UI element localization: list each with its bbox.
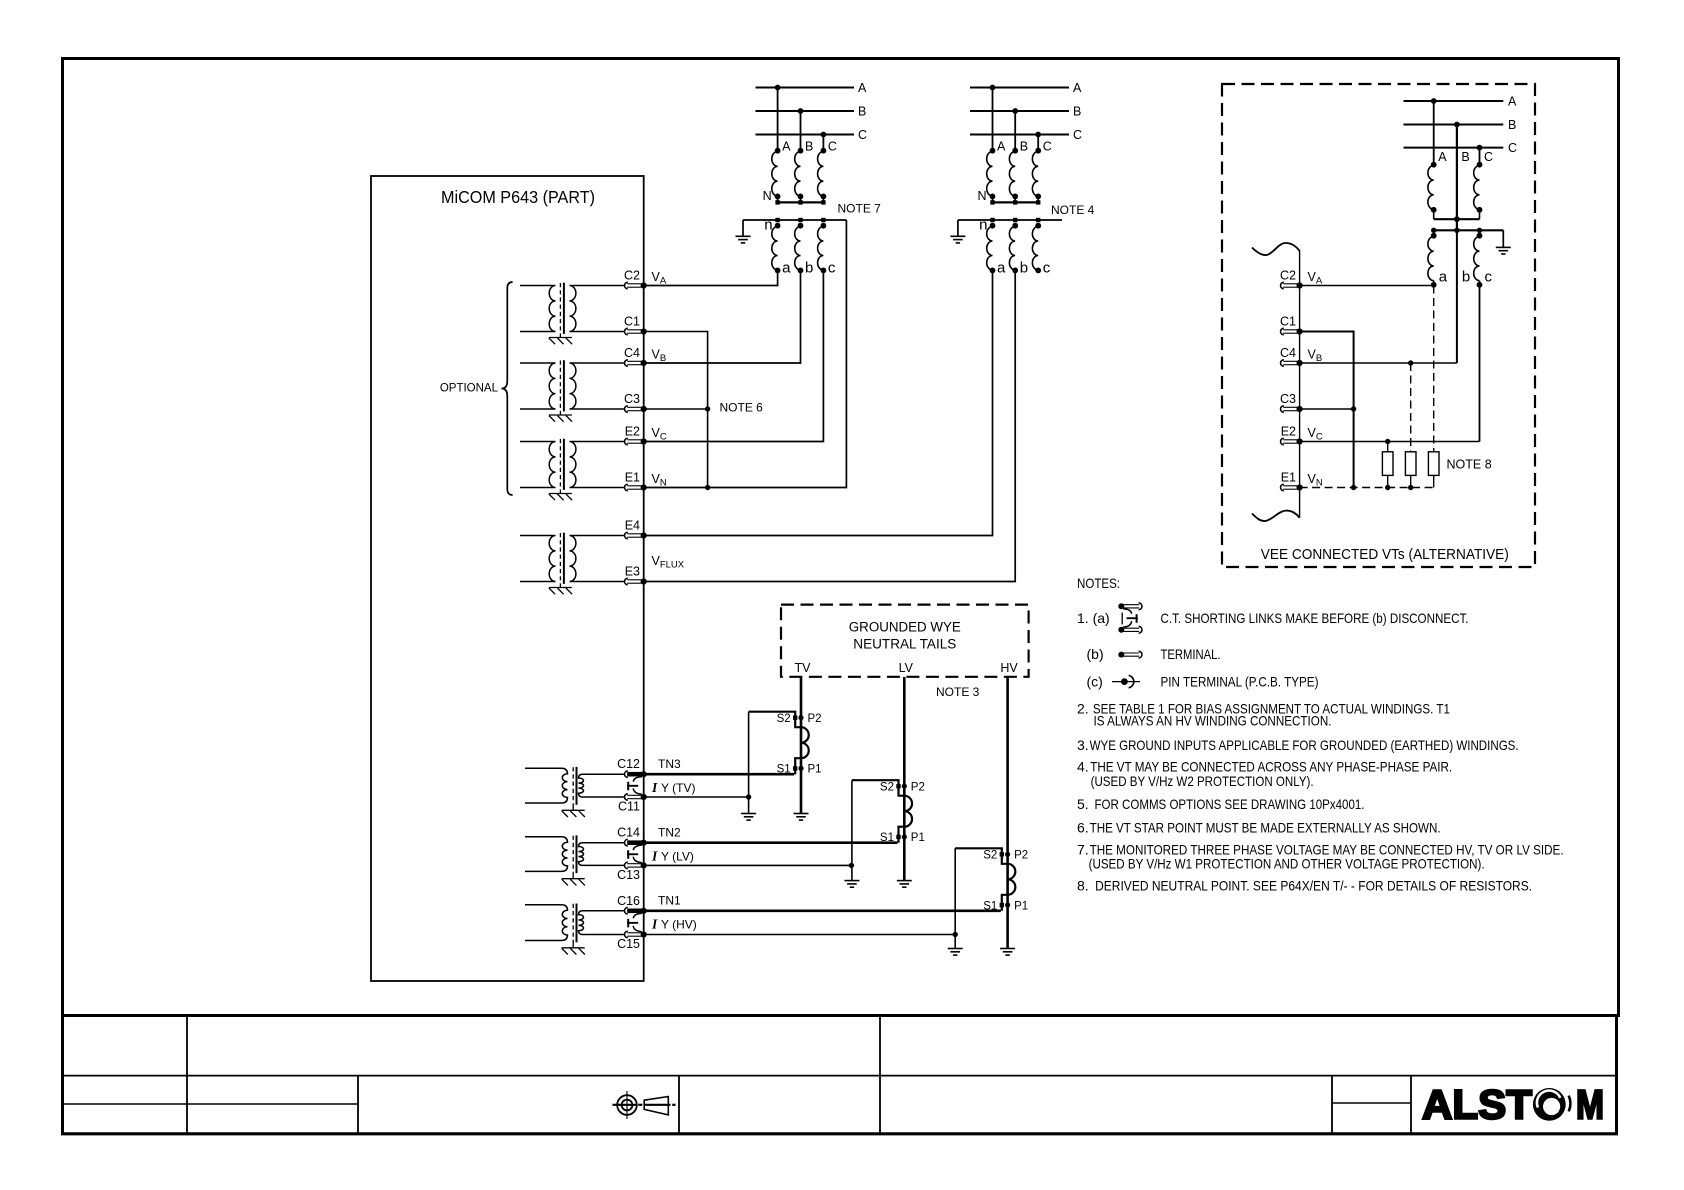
CT LV secondary: [844, 780, 912, 887]
svg-text:P1: P1: [1014, 900, 1028, 912]
svg-text:DERIVED NEUTRAL POINT. SEE P6: DERIVED NEUTRAL POINT. SEE P64X/EN T/- -…: [1095, 878, 1532, 894]
svg-text:c: c: [1485, 269, 1493, 286]
wye VT bank 1 (NOTE 7): [736, 81, 868, 276]
svg-text:(USED BY V/Hz W1 PROTECTION AN: (USED BY V/Hz W1 PROTECTION AND OTHER VO…: [1089, 855, 1485, 871]
svg-text:P2: P2: [1014, 850, 1028, 862]
svg-text:VEE CONNECTED VTs (ALTERNATIVE: VEE CONNECTED VTs (ALTERNATIVE): [1261, 546, 1509, 563]
svg-text:A: A: [782, 140, 791, 154]
svg-text:(USED BY V/Hz W2 PROTECTION ON: (USED BY V/Hz W2 PROTECTION ONLY).: [1091, 773, 1314, 789]
ALSTOM logo: [1422, 1082, 1604, 1128]
svg-text:1. (a): 1. (a): [1077, 610, 1110, 626]
svg-text:HV: HV: [1000, 661, 1018, 675]
svg-text:C16: C16: [617, 894, 640, 908]
title block grid: [61, 1016, 1618, 1134]
svg-text:THE VT STAR POINT MUST BE MADE: THE VT STAR POINT MUST BE MADE EXTERNALL…: [1090, 820, 1441, 836]
label IY (TV): [651, 780, 695, 795]
svg-text:b: b: [1020, 259, 1028, 276]
vee secondary bar with ground: [1431, 228, 1511, 254]
terminal E1: [625, 484, 647, 491]
vee primary bar: [1434, 218, 1480, 220]
svg-text:B: B: [1073, 104, 1081, 118]
vee dashed wire from VB: [1410, 363, 1412, 452]
vee wire VB: [1300, 362, 1457, 364]
wire C1 to star point: [644, 332, 708, 488]
terminal C15: [625, 931, 647, 938]
svg-text:Y (LV): Y (LV): [661, 850, 694, 864]
vee VT secondary winding a: [1428, 233, 1448, 288]
svg-text:C.T. SHORTING LINKS MAKE BEFOR: C.T. SHORTING LINKS MAKE BEFORE (b) DISC…: [1161, 610, 1469, 626]
svg-text:C: C: [1508, 141, 1517, 155]
svg-text:NOTE 4: NOTE 4: [1051, 203, 1095, 217]
terminal C13: [625, 862, 647, 869]
vee junction VN r2: [1408, 485, 1413, 490]
svg-text:Y (HV): Y (HV): [661, 918, 697, 932]
svg-text:a: a: [997, 259, 1006, 276]
svg-text:a: a: [782, 259, 791, 276]
svg-text:B: B: [1461, 150, 1469, 164]
svg-text:3.: 3.: [1077, 737, 1089, 753]
CT HV secondary: [948, 848, 1016, 955]
svg-text:ALST: ALST: [1422, 1082, 1532, 1128]
svg-text:N: N: [763, 189, 772, 203]
svg-text:C4: C4: [624, 346, 640, 360]
svg-text:Y (TV): Y (TV): [661, 781, 695, 795]
svg-text:C11: C11: [618, 800, 640, 814]
vee terminal C2: [1281, 282, 1303, 289]
svg-text:NEUTRAL TAILS: NEUTRAL TAILS: [853, 637, 956, 652]
junction C15 ground: [953, 932, 958, 937]
svg-text:7.: 7.: [1077, 842, 1089, 858]
svg-text:TN3: TN3: [658, 757, 681, 771]
svg-text:TN2: TN2: [658, 826, 681, 840]
drawing border frame: [63, 59, 1619, 1016]
svg-text:OPTIONAL: OPTIONAL: [440, 383, 499, 395]
wire C15 to HV ground: [644, 934, 956, 936]
svg-text:C2: C2: [624, 269, 640, 283]
CT LV primary: [897, 677, 912, 887]
svg-text:E3: E3: [625, 565, 640, 579]
svg-text:C14: C14: [617, 826, 640, 840]
wire bank2 b to E3: [644, 270, 1016, 581]
vee wire VA: [1300, 285, 1434, 287]
wire TN1 C16 to HV S1: [644, 909, 1001, 912]
svg-text:I: I: [651, 849, 658, 864]
terminal C4: [625, 360, 647, 367]
svg-text:6.: 6.: [1077, 820, 1089, 836]
wire bank1 c to VC: [644, 270, 824, 441]
terminal C11: [625, 794, 647, 801]
vee wire VC: [1300, 441, 1480, 443]
wire bank1 n to VN: [644, 220, 847, 488]
vee phase B drop: [1454, 122, 1470, 231]
first-angle projection symbol: [644, 1097, 675, 1115]
svg-text:C1: C1: [1280, 315, 1296, 329]
vee junction VN r1: [1385, 485, 1390, 490]
svg-text:N: N: [977, 189, 986, 203]
svg-text:P2: P2: [911, 782, 925, 794]
symbol terminal: [1118, 651, 1142, 658]
svg-text:A: A: [997, 140, 1006, 154]
svg-text:NOTE 8: NOTE 8: [1447, 458, 1492, 472]
svg-text:A: A: [1508, 94, 1517, 108]
transformer CT input TN2: [525, 835, 625, 885]
svg-text:n: n: [764, 216, 772, 233]
shorting link TN1 terminals: [627, 913, 642, 931]
svg-text:TN1: TN1: [658, 894, 681, 908]
vee connected VTs box: [1222, 84, 1535, 567]
svg-text:E4: E4: [625, 519, 640, 533]
vee junction C3 star: [1351, 406, 1356, 411]
svg-text:E2: E2: [1281, 425, 1296, 439]
CT HV primary: [1000, 677, 1015, 955]
vee wire b to VB: [1456, 230, 1458, 363]
svg-text:c: c: [1043, 259, 1051, 276]
vee junction VC resistor: [1385, 439, 1390, 444]
svg-text:NOTE 7: NOTE 7: [838, 202, 882, 216]
CT TV secondary: [741, 712, 809, 820]
svg-text:C: C: [858, 128, 867, 142]
svg-text:C3: C3: [1280, 392, 1296, 406]
vee VT secondary winding c: [1474, 233, 1493, 442]
terminal C3: [625, 406, 647, 413]
svg-text:C1: C1: [624, 315, 640, 329]
svg-text:C: C: [1073, 128, 1082, 142]
wire C3 to star point: [644, 408, 708, 410]
vee terminal E1: [1281, 484, 1303, 491]
svg-text:E1: E1: [625, 471, 640, 485]
svg-text:TERMINAL.: TERMINAL.: [1161, 646, 1221, 662]
resistor R3 (NOTE 8): [1428, 452, 1439, 488]
svg-text:C: C: [828, 140, 837, 154]
grounded wye neutral tails box: [781, 605, 1029, 677]
svg-text:S2: S2: [983, 850, 997, 862]
svg-text:(c): (c): [1087, 674, 1103, 690]
junction C13 ground: [849, 863, 854, 868]
svg-text:NOTE 3: NOTE 3: [936, 685, 980, 699]
wire bank1 a to VA: [644, 270, 778, 285]
transformer VT input VFLUX: [520, 533, 625, 595]
svg-text:M: M: [1576, 1082, 1604, 1128]
svg-text:C: C: [1484, 150, 1493, 164]
wire bank2 a to E4: [644, 270, 993, 535]
vee terminal C4: [1281, 360, 1303, 367]
svg-text:NOTE 6: NOTE 6: [720, 401, 764, 415]
svg-text:4.: 4.: [1077, 759, 1089, 775]
svg-text:I: I: [651, 780, 658, 795]
transformer CT input TN1: [525, 904, 625, 955]
terminal E2: [625, 438, 647, 445]
svg-text:A: A: [858, 81, 867, 95]
brace for optional VT inputs: [502, 282, 513, 495]
svg-text:n: n: [979, 216, 987, 233]
svg-text:B: B: [858, 104, 866, 118]
svg-text:TV: TV: [795, 661, 812, 675]
wire TN2 C14 to LV S1: [644, 841, 898, 844]
transformer CT input TN3: [525, 767, 625, 817]
MiCOM P643 relay box: [371, 176, 644, 981]
svg-text:C15: C15: [617, 937, 640, 951]
vee terminal C3: [1281, 406, 1303, 413]
wire bank1 b to VB: [644, 270, 801, 363]
junction C11 ground: [746, 794, 751, 799]
vee bank buses: [1404, 94, 1518, 155]
vee wire C1-C3 star: [1300, 332, 1354, 488]
vee junction VN star: [1351, 485, 1356, 490]
vee wavy break bottom: [1252, 511, 1300, 521]
svg-text:C12: C12: [617, 757, 640, 771]
svg-text:NOTES:: NOTES:: [1077, 575, 1120, 591]
wye VT bank 2 (NOTE 4): [950, 81, 1082, 276]
svg-text:C: C: [1043, 140, 1052, 154]
wire C11 to TV ground: [644, 796, 749, 798]
symbol pin terminal: [1112, 675, 1140, 687]
vee wavy break top: [1252, 243, 1300, 255]
svg-text:(b): (b): [1087, 646, 1104, 662]
svg-text:GROUNDED WYE: GROUNDED WYE: [849, 620, 961, 635]
vee dashed wire a: [1433, 286, 1435, 452]
transformer VT input VC: [520, 439, 625, 501]
svg-text:I: I: [651, 917, 658, 932]
label IY (LV): [651, 849, 694, 864]
svg-text:P1: P1: [911, 832, 925, 844]
resistor R1 (NOTE 8): [1382, 452, 1393, 488]
wire TN3 C12 to TV S1: [644, 773, 795, 776]
svg-text:b: b: [1462, 269, 1470, 286]
terminal E4: [625, 532, 647, 539]
svg-text:8.: 8.: [1077, 878, 1089, 894]
svg-text:MiCOM P643 (PART): MiCOM P643 (PART): [441, 187, 595, 207]
junction star point at C3: [705, 406, 710, 411]
svg-text:5.: 5.: [1077, 796, 1089, 812]
svg-text:P1: P1: [808, 764, 822, 776]
vee terminal E2: [1281, 438, 1303, 445]
terminal C12: [625, 771, 647, 778]
symbol CT shorting links: [1118, 603, 1142, 633]
svg-text:E2: E2: [625, 425, 640, 439]
vee wire VN dashed: [1300, 487, 1435, 489]
vee terminal C1: [1281, 328, 1303, 335]
svg-text:C4: C4: [1280, 346, 1296, 360]
junction star point at VN: [705, 485, 710, 490]
transformer VT input VA: [520, 283, 625, 345]
svg-text:FOR COMMS OPTIONS SEE DRAWING: FOR COMMS OPTIONS SEE DRAWING 10Px4001.: [1095, 796, 1365, 812]
terminal E3: [625, 578, 647, 585]
svg-text:S2: S2: [880, 782, 894, 794]
wire C13 to LV ground: [644, 864, 852, 866]
svg-text:C2: C2: [1280, 269, 1296, 283]
registration target symbol: [613, 1091, 643, 1119]
terminal C2: [625, 282, 647, 289]
svg-text:A: A: [1438, 150, 1447, 164]
svg-text:B: B: [1508, 118, 1516, 132]
CT TV primary: [794, 677, 809, 820]
vee label b: [1462, 269, 1470, 286]
svg-text:A: A: [1073, 81, 1082, 95]
vee VT primary winding C: [1474, 145, 1493, 219]
svg-text:WYE GROUND INPUTS APPLICABLE F: WYE GROUND INPUTS APPLICABLE FOR GROUNDE…: [1090, 737, 1519, 753]
svg-text:B: B: [805, 140, 813, 154]
transformer VT input VB: [520, 360, 625, 422]
svg-text:a: a: [1439, 269, 1448, 286]
terminal C1: [625, 328, 647, 335]
svg-text:IS ALWAYS AN HV WINDING CONNEC: IS ALWAYS AN HV WINDING CONNECTION.: [1094, 712, 1332, 728]
shorting link TN2 terminals: [627, 845, 642, 862]
svg-text:PIN TERMINAL (P.C.B. TYPE): PIN TERMINAL (P.C.B. TYPE): [1161, 674, 1319, 690]
vee junction VB resistor: [1408, 360, 1413, 365]
svg-text:C13: C13: [617, 868, 640, 882]
svg-text:b: b: [805, 259, 813, 276]
vee wire C3: [1300, 408, 1354, 410]
resistor R2 (NOTE 8): [1405, 452, 1416, 488]
label IY (HV): [651, 917, 697, 932]
vee terminal rail: [1299, 251, 1301, 518]
svg-text:P2: P2: [808, 713, 822, 725]
terminal C16: [625, 908, 647, 915]
vee VT primary winding A: [1428, 98, 1447, 219]
svg-text:2.: 2.: [1077, 700, 1089, 716]
svg-text:E1: E1: [1281, 471, 1296, 485]
svg-text:B: B: [1020, 140, 1028, 154]
svg-text:C3: C3: [624, 392, 640, 406]
svg-text:S2: S2: [777, 713, 791, 725]
svg-text:LV: LV: [899, 661, 914, 675]
shorting link TN3 terminals: [627, 777, 642, 794]
svg-text:c: c: [828, 259, 836, 276]
terminal C14: [625, 839, 647, 846]
vee wire from VC to R1: [1387, 442, 1389, 452]
